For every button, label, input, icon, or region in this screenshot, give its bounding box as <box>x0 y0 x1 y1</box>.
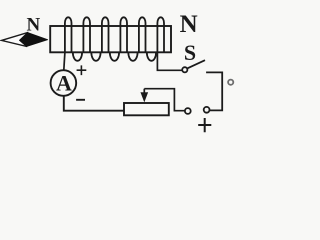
svg-text:A: A <box>56 71 72 96</box>
rheostat slider arrow <box>143 89 145 94</box>
wire slider to left terminal <box>144 89 185 111</box>
compass needle magnet (black half) <box>20 33 48 47</box>
coil bottom loop 2 <box>91 52 100 60</box>
ammeter A1 circle <box>51 70 77 96</box>
switch S pivot <box>182 67 187 72</box>
svg-text:N: N <box>180 11 198 38</box>
spare terminal post <box>228 80 233 85</box>
coil top arc 2 <box>83 17 90 27</box>
battery plus label <box>198 118 211 132</box>
switch S blade (open) <box>187 60 205 68</box>
solenoid core rectangle <box>50 26 171 52</box>
coil bottom loop 3 <box>110 52 119 61</box>
rheostat R1 body <box>124 103 169 115</box>
coil top arc 3 <box>102 17 109 27</box>
terminal post left <box>185 108 191 114</box>
coil top arc 5 <box>139 17 146 27</box>
ammeter plus terminal label <box>77 65 87 75</box>
svg-text:S: S <box>184 40 196 65</box>
coil top arc 6 <box>157 17 164 27</box>
coil top arc 4 <box>120 17 127 27</box>
compass needle magnet (white half) <box>2 33 28 47</box>
coil bottom loop 5 <box>147 52 156 61</box>
coil vertical legs through core <box>65 26 164 52</box>
coil bottom loop 1 <box>73 52 82 60</box>
wire ammeter bottom to rheostat <box>64 96 124 111</box>
coil top arc 1 <box>65 17 72 27</box>
wire right terminal to switch contact <box>206 72 222 110</box>
wire coil left end to ammeter <box>64 52 65 70</box>
terminal post right <box>204 107 210 113</box>
wire coil right end to switch pivot <box>157 52 182 70</box>
svg-text:N: N <box>27 14 41 35</box>
coil bottom loop 4 <box>128 52 137 61</box>
ammeter minus terminal label <box>76 99 85 101</box>
